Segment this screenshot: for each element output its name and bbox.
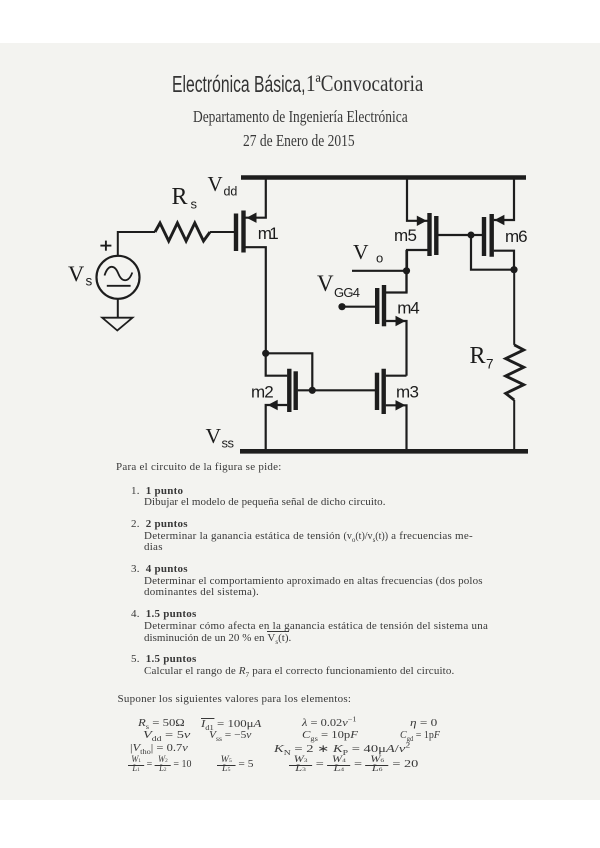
transistor m5 gate bar [434, 216, 438, 255]
transistor m2 gate bar [294, 371, 298, 410]
m5 gate lead [438, 234, 471, 236]
node dot Vo [403, 267, 410, 274]
header: date [243, 131, 355, 151]
m2 diode-connect wire [266, 353, 313, 390]
svg-text:m5: m5 [394, 226, 417, 245]
list item 4 [131, 608, 197, 620]
node dot m5/m6 gate [468, 232, 475, 239]
m6 source leg (upper) [494, 179, 514, 220]
wire Rs to m1 gate [210, 231, 234, 233]
m5 source leg (upper) [407, 179, 428, 221]
svg-text:m3: m3 [396, 382, 419, 401]
svg-text:m6: m6 [505, 227, 528, 246]
transistor m6 channel bar [490, 214, 494, 257]
ground symbol [102, 318, 132, 331]
wire Vs top to resistor Rs [118, 232, 155, 256]
header: title line [172, 71, 305, 98]
resistor Rs zigzag [155, 223, 210, 241]
m4 source arrow [396, 316, 406, 326]
m1 source arrow [247, 213, 257, 223]
svg-text:V: V [208, 172, 223, 196]
svg-text:R: R [470, 343, 486, 369]
m6 drain leg (lower) [494, 251, 514, 270]
svg-text:V: V [68, 261, 84, 286]
values table row 3 [130, 743, 188, 754]
m3 source arrow [396, 400, 406, 410]
m6 source arrow [494, 215, 504, 225]
node dot m1 drain / m2 drain [262, 350, 269, 357]
header: department [193, 107, 408, 127]
transistor m5 channel bar [427, 213, 431, 256]
svg-text:ss: ss [222, 436, 235, 451]
m3 drain leg (upper) [386, 375, 407, 377]
m2 source arrow [268, 400, 278, 410]
svg-text:R: R [172, 184, 188, 210]
svg-text:GG4: GG4 [334, 285, 360, 300]
wire m5/m6 gate node down to m6 drain [471, 235, 514, 270]
m1 source leg (upper) [246, 179, 266, 218]
values table row 1 [138, 718, 185, 729]
node dot m6 drain / R7 [510, 266, 517, 273]
problem statement text [116, 461, 282, 473]
m2 gate lead / gate bus to m3 [298, 389, 376, 391]
transistor m4 channel bar [382, 285, 386, 326]
svg-text:m1: m1 [258, 224, 279, 243]
values table row 2 [143, 730, 190, 741]
m2 drain leg (upper) [266, 353, 288, 375]
svg-text:V: V [353, 240, 369, 264]
svg-text:m4: m4 [397, 299, 420, 318]
output node Vo lead [352, 270, 407, 272]
svg-text:V: V [206, 424, 222, 448]
svg-text:o: o [376, 251, 383, 266]
m6 gate lead [471, 234, 482, 236]
m5 source arrow [417, 216, 427, 226]
list item 2 [131, 518, 188, 530]
wire R7 to Vss rail [513, 400, 515, 449]
VGG4 terminal dot [338, 303, 345, 310]
svg-text:m2: m2 [251, 382, 274, 401]
m3 source leg (lower) [386, 405, 407, 449]
m5 drain leg (lower) [407, 250, 428, 271]
list item 3 [131, 563, 188, 575]
source Vs circle [97, 256, 140, 299]
transistor m3 channel bar [382, 369, 386, 414]
svg-text:dd: dd [224, 185, 238, 199]
m4 source leg (lower) [386, 321, 407, 376]
transistor m1 gate bar [234, 214, 238, 252]
m4 gate lead wire from VGG4 [342, 306, 375, 308]
svg-text:s: s [191, 197, 198, 212]
wire Vs bottom to ground [117, 299, 119, 318]
list item 1 [131, 485, 183, 497]
m2 source leg (lower) [266, 405, 288, 449]
node dot gate bus [309, 387, 316, 394]
svg-text:V: V [317, 271, 334, 296]
list item 5 [131, 653, 197, 665]
Vdd rail [241, 175, 526, 180]
m1 drain leg (lower) [246, 247, 266, 353]
resistor R7 zigzag [506, 345, 524, 400]
values table row 4 (fractions) [128, 757, 192, 774]
transistor m2 channel bar [287, 369, 291, 412]
minus bar inside Vs [107, 285, 131, 287]
wire m5 drain to m4 drain [405, 250, 407, 293]
svg-text:s: s [86, 274, 93, 289]
plus sign [100, 245, 111, 247]
transistor m3 gate bar [375, 373, 379, 410]
m4 drain leg (upper) [386, 271, 407, 293]
transistor m4 gate bar [375, 288, 379, 324]
svg-text:7: 7 [486, 357, 494, 372]
transistor m1 channel bar [241, 211, 245, 253]
wire m6 drain node to R7 [513, 270, 515, 345]
sine wave inside Vs [105, 267, 133, 280]
values intro [118, 693, 352, 705]
transistor m6 gate bar [482, 217, 486, 256]
Vss rail [240, 449, 528, 454]
